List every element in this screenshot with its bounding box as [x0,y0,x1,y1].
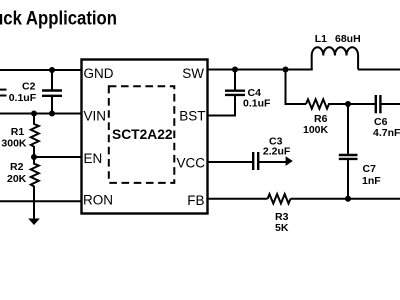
svg-text:R2: R2 [10,161,24,173]
svg-text:Buck Application: Buck Application [0,8,117,30]
node: C2 bottom junction [49,111,55,117]
svg-text:100K: 100K [303,124,329,136]
svg-text:EN: EN [84,151,103,166]
resistor R2 [31,157,39,189]
svg-text:5K: 5K [275,222,289,234]
svg-text:2.2uF: 2.2uF [263,146,291,158]
node: R1/R2/EN junction [31,154,37,160]
resistor R1 [31,114,39,158]
svg-text:VIN: VIN [84,109,107,124]
svg-text:68uH: 68uH [335,33,361,45]
IC U1 dashed die outline [109,86,175,183]
arrow: VCC output [286,156,293,166]
capacitor C6 [348,95,400,113]
node: C7/FB junction [345,196,351,202]
node: SW/C4 junction [232,67,238,73]
wire: EN [34,156,81,158]
resistor R6 [306,99,348,108]
node: C2 top junction [49,67,55,73]
capacitor C1 (cropped at left edge) [0,90,7,96]
wire: R2 to ground [33,189,35,219]
svg-text:SW: SW [182,66,204,81]
svg-text:C2: C2 [22,81,36,93]
svg-text:L1: L1 [315,33,327,45]
wire: SW to inductor [207,69,313,71]
wire: C3 to arrow [258,161,286,163]
wire: FB rail [207,198,268,200]
svg-text:SCT2A22: SCT2A22 [112,127,173,142]
svg-text:GND: GND [84,66,114,81]
svg-text:20K: 20K [7,173,27,185]
capacitor C3 [253,152,258,170]
wire: input top rail to GND pin [0,69,81,71]
wire: RON rail [0,200,81,202]
svg-text:C7: C7 [363,163,377,175]
wire: L1 to output (cropped right) [358,69,400,71]
svg-text:0.1uF: 0.1uF [243,98,271,110]
inductor L1 [312,47,358,69]
svg-text:0.1uF: 0.1uF [9,92,37,104]
svg-text:BST: BST [179,109,205,124]
svg-text:4.7nF: 4.7nF [373,127,400,139]
svg-text:FB: FB [187,193,204,208]
wire: VIN rail [0,113,81,115]
ground arrow [28,219,40,226]
resistor R3 [268,194,291,203]
node: R6/C6/C7 junction [345,101,351,107]
op IC U1 package outline [82,60,208,214]
wire: SW branch down to R6 [286,70,307,105]
node: VIN/R1 junction [31,111,37,117]
capacitor C2 [42,70,62,114]
svg-text:300K: 300K [1,138,27,150]
wire: VCC to C3 [207,161,253,163]
node: SW branch junction [283,67,289,73]
svg-text:VCC: VCC [176,156,205,171]
capacitor C4 with BST return [207,70,245,116]
svg-text:1nF: 1nF [362,175,381,187]
svg-text:RON: RON [83,193,113,208]
capacitor C7 [339,104,358,199]
svg-text:R1: R1 [11,126,25,138]
wire: R3 to right edge [291,198,400,200]
